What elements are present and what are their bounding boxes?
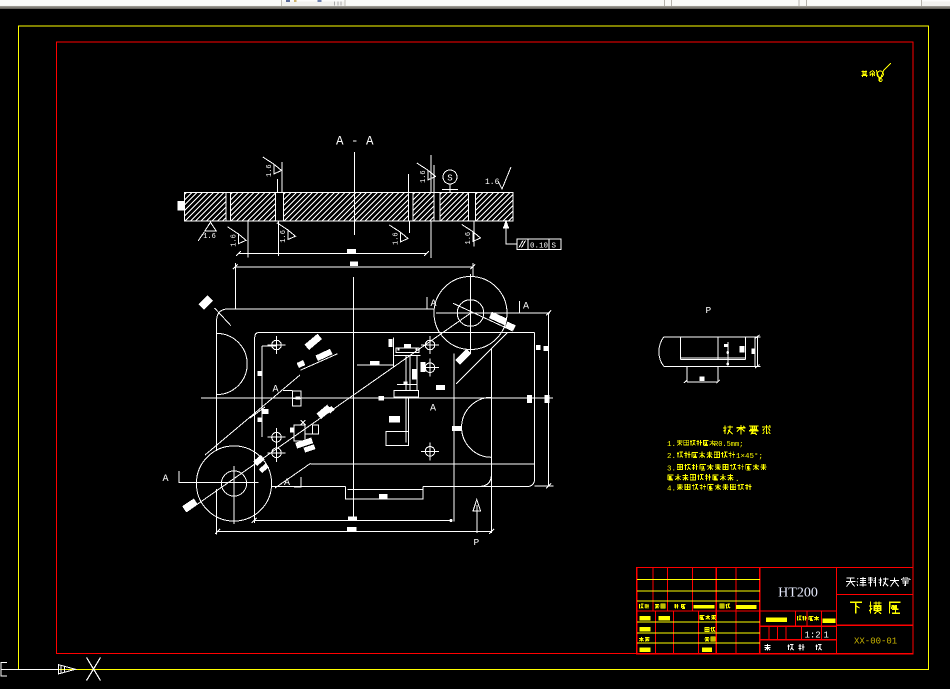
roughness check symbol bbox=[876, 63, 891, 80]
bottom dimension 250 bbox=[254, 520, 453, 522]
tech requirements title bbox=[724, 425, 726, 434]
row4 labels bbox=[639, 604, 641, 608]
P view inner rect bbox=[680, 337, 682, 360]
middle col row3 verticals bbox=[768, 626, 770, 640]
datum S symbol bbox=[443, 170, 457, 184]
svg-text:3.: 3. bbox=[667, 466, 676, 474]
svg-text:A: A bbox=[430, 404, 436, 415]
bottom tab bbox=[345, 487, 423, 500]
part name 下模座 bbox=[850, 601, 862, 603]
boss1 leader text bbox=[182, 499, 198, 512]
guide boss bottom-left outer bbox=[196, 446, 271, 521]
university name bbox=[847, 577, 855, 579]
top revision table verticals bbox=[652, 568, 654, 612]
ucs icon bracket bbox=[1, 662, 7, 676]
cavity chamfer top-right bbox=[456, 332, 508, 384]
punch lower bracket bbox=[405, 397, 407, 443]
svg-text:S: S bbox=[447, 174, 452, 184]
punch bottom flange bbox=[394, 391, 418, 397]
svg-text:0.10: 0.10 bbox=[530, 243, 549, 251]
plate outline bbox=[229, 308, 435, 310]
plan vertical centerline bbox=[352, 277, 354, 521]
section centerline bbox=[354, 152, 356, 235]
roughness symbol above hole4 bbox=[428, 170, 436, 180]
toolbar icon 1 bbox=[286, 0, 290, 2]
punch top flange bbox=[396, 348, 419, 353]
svg-text:A: A bbox=[523, 302, 529, 313]
roughness below hole3 bbox=[400, 232, 408, 242]
punch B leader text bbox=[317, 405, 332, 419]
svg-text:P: P bbox=[474, 537, 480, 548]
svg-text:1.6: 1.6 bbox=[231, 234, 239, 247]
cavity chamfer bottom-left bbox=[275, 463, 311, 488]
svg-text:1.6: 1.6 bbox=[393, 232, 401, 245]
tech req line 4 bbox=[668, 474, 674, 476]
P view arrow bbox=[476, 505, 478, 533]
guide boss top-right outer bbox=[434, 277, 507, 350]
left D slot bbox=[217, 333, 248, 394]
punch stem bbox=[405, 355, 407, 391]
right D slot bbox=[462, 397, 492, 457]
small punch B cluster bbox=[294, 425, 305, 441]
roughness below left end bbox=[205, 222, 217, 231]
cavity fillet bottom-right bbox=[480, 464, 492, 487]
middle column rows bbox=[760, 610, 837, 612]
right height dimension bbox=[548, 313, 550, 486]
title block outer bbox=[637, 568, 913, 654]
svg-text:HT200: HT200 bbox=[778, 586, 818, 601]
ucs icon x axis bbox=[1, 668, 58, 670]
small punch A bbox=[293, 391, 302, 398]
bottom left table yellow rows bbox=[637, 621, 760, 623]
punch mid line bbox=[397, 384, 418, 386]
section body rectangle bbox=[184, 193, 513, 221]
section line diagonal bbox=[187, 313, 471, 512]
svg-text:XX-00-01: XX-00-01 bbox=[854, 637, 897, 647]
guide boss top-right hole bbox=[457, 300, 484, 327]
right column rows bbox=[836, 594, 913, 596]
section line right segment bbox=[436, 312, 550, 314]
label 220 blob bbox=[437, 386, 445, 391]
left tables split bbox=[637, 610, 760, 612]
svg-text:A - A: A - A bbox=[336, 135, 374, 149]
svg-text:1.6: 1.6 bbox=[420, 170, 428, 183]
ucs icon X label bbox=[87, 658, 101, 681]
plate TL corner leader bbox=[215, 308, 232, 326]
parallelism tolerance frame bbox=[517, 239, 561, 250]
sheet row 共张第张 bbox=[765, 644, 771, 646]
section hatch 45deg bbox=[184, 193, 513, 221]
P view right dims bbox=[744, 337, 746, 360]
plan top dimension 310 bbox=[235, 266, 472, 268]
svg-text:P: P bbox=[706, 305, 712, 316]
toolbar left panel bbox=[0, 0, 281, 6]
bottom-left bars/labels bbox=[640, 616, 651, 621]
svg-text:1×45°;: 1×45°; bbox=[736, 452, 763, 461]
guide boss bottom-left hole bbox=[221, 471, 246, 496]
svg-text:2.: 2. bbox=[667, 453, 676, 461]
leader to small punch A bbox=[315, 349, 332, 361]
svg-text:1.6: 1.6 bbox=[203, 233, 216, 241]
svg-text:S: S bbox=[552, 243, 557, 251]
leader from punch B to boss bbox=[205, 375, 300, 455]
boss centerlines bbox=[470, 274, 472, 353]
roughness symbol above hole2 bbox=[274, 164, 282, 174]
P view small stem bbox=[727, 342, 729, 364]
section line left segment bbox=[179, 482, 259, 484]
punch left leader bbox=[357, 364, 393, 366]
svg-text:A: A bbox=[284, 478, 290, 489]
section hole centerlines bbox=[277, 179, 279, 193]
leader texts lower-left bbox=[253, 455, 265, 466]
svg-text:1.6: 1.6 bbox=[266, 164, 274, 177]
toolbar strip bbox=[0, 0, 950, 6]
section left lug notch bbox=[178, 201, 185, 211]
left vertical dimension bbox=[261, 346, 263, 437]
toolbar icon 2 bbox=[294, 0, 297, 2]
boss2 radial leader bbox=[453, 303, 513, 331]
svg-text:R0.5mm;: R0.5mm; bbox=[714, 441, 743, 449]
svg-text:A: A bbox=[431, 299, 437, 310]
svg-text:1.6: 1.6 bbox=[485, 178, 500, 187]
middle col row2 verticals bbox=[794, 611, 796, 626]
plan horizontal centerline bbox=[201, 397, 553, 399]
roughness below hole1 bbox=[239, 234, 247, 244]
section hole walls bbox=[225, 193, 227, 221]
cavity outline bbox=[260, 331, 502, 333]
material row labels bbox=[766, 618, 787, 622]
bottom dimension 282 bbox=[218, 531, 492, 533]
toolbar separators bbox=[334, 2, 336, 6]
right D slot label bbox=[452, 426, 462, 431]
svg-text:A: A bbox=[163, 474, 169, 485]
toolbar icon 3 bbox=[318, 0, 322, 2]
tolerance leader bbox=[506, 226, 517, 244]
roughness below hole2 bbox=[288, 230, 296, 240]
roughness note 其余 bbox=[862, 71, 864, 76]
svg-text:1.6: 1.6 bbox=[465, 232, 473, 245]
section dimension line bbox=[239, 253, 427, 255]
P view outline bbox=[664, 337, 755, 367]
punch dim ext left bbox=[392, 337, 394, 366]
svg-text:4.: 4. bbox=[667, 485, 676, 493]
roughness below hole5 bbox=[473, 232, 481, 242]
svg-text:1:2: 1:2 bbox=[805, 631, 821, 641]
bottom left table verticals bbox=[654, 611, 656, 654]
svg-text:1.6: 1.6 bbox=[280, 230, 288, 243]
P view bottom tab bbox=[686, 367, 688, 382]
svg-text:1.: 1. bbox=[667, 441, 676, 449]
toolbar white panels bbox=[345, 0, 921, 6]
ucs icon arrow bbox=[59, 665, 76, 674]
title block main verticals bbox=[759, 568, 761, 654]
svg-text:1: 1 bbox=[824, 631, 829, 641]
svg-text:.: . bbox=[735, 476, 740, 484]
screw holes bbox=[272, 340, 282, 350]
top revision table yellow rows bbox=[637, 578, 760, 580]
